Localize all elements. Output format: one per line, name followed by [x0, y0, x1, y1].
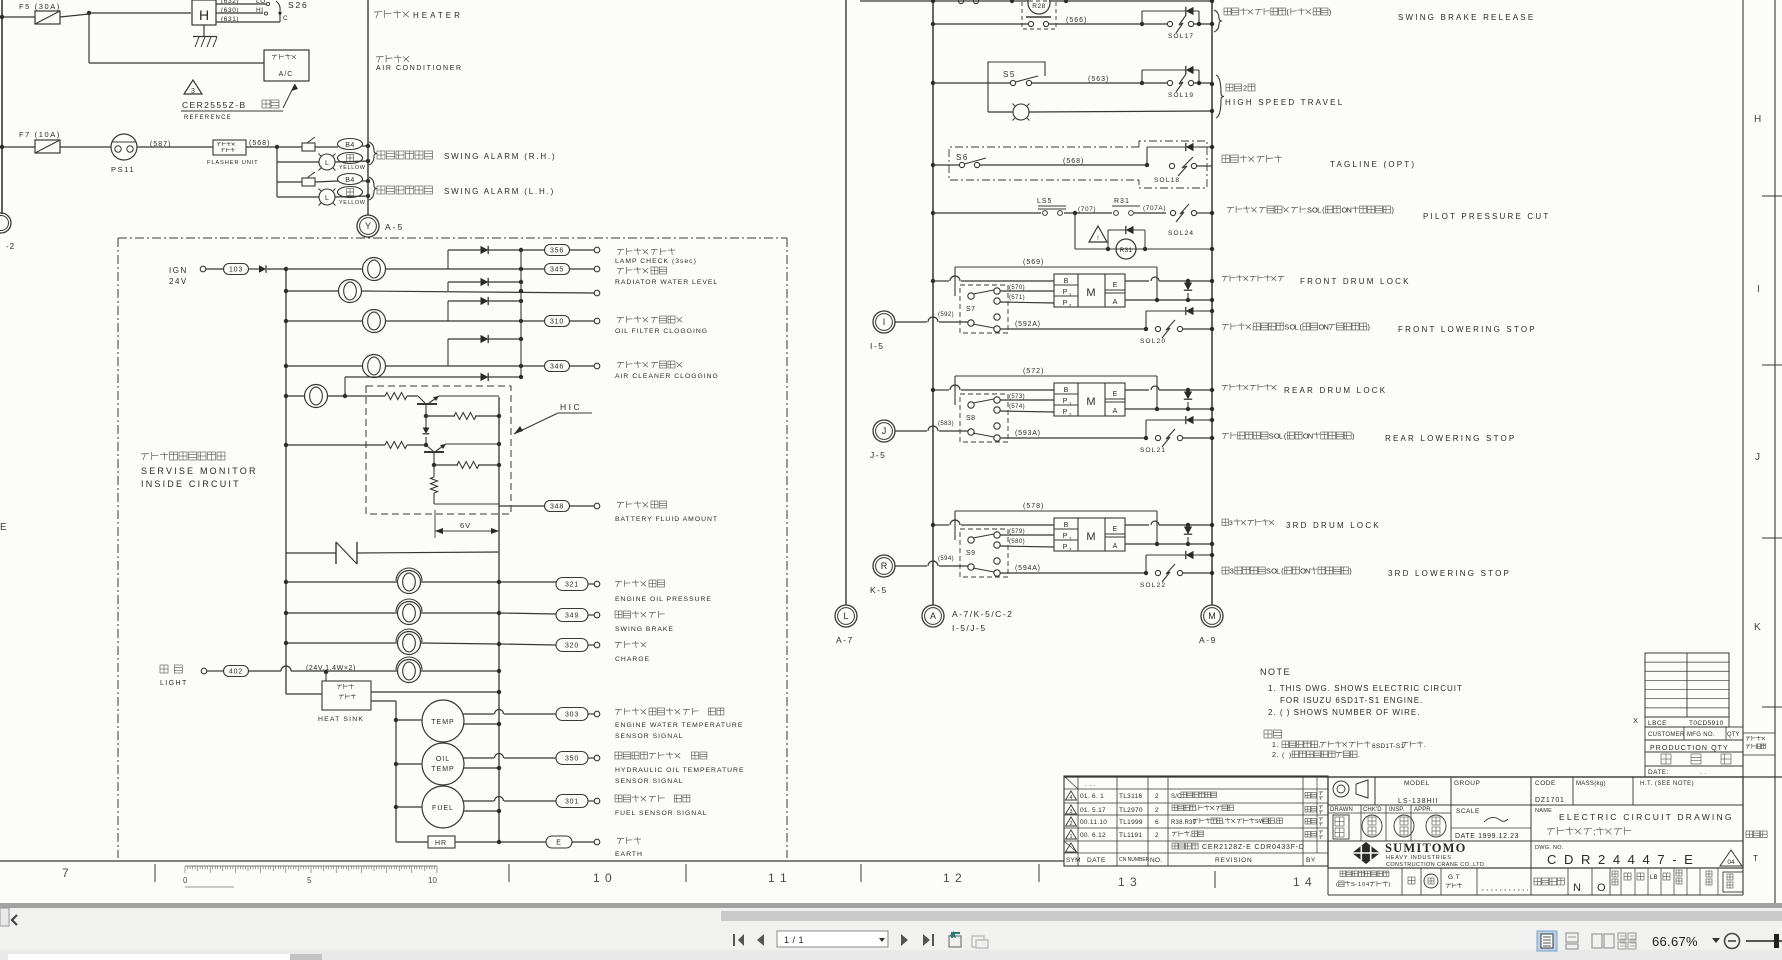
svg-text:): ): [1329, 7, 1331, 16]
svg-text:FLASHER UNIT: FLASHER UNIT: [207, 160, 258, 166]
sym triangles: [1066, 791, 1077, 800]
svg-text:-: -: [1355, 882, 1357, 888]
svg-text:INSIDE CIRCUIT: INSIDE CIRCUIT: [141, 479, 241, 489]
svg-text:T0CD5910: T0CD5910: [1689, 720, 1724, 727]
svg-text:RADIATOR WATER LEVEL: RADIATOR WATER LEVEL: [615, 279, 718, 286]
buzzer R.H.: [302, 143, 315, 151]
arrow to A/C box: [283, 84, 295, 108]
svg-text:NOTE: NOTE: [1260, 667, 1291, 677]
svg-text:K-5: K-5: [870, 585, 888, 595]
svg-text:K: K: [1754, 622, 1761, 633]
svg-text:I-5: I-5: [870, 341, 884, 351]
svg-text:1 0: 1 0: [593, 871, 613, 885]
svg-text:;: ;: [1593, 826, 1595, 836]
svg-text:REAR LOWERING STOP: REAR LOWERING STOP: [1385, 434, 1516, 443]
svg-text:0: 0: [1362, 882, 1365, 888]
svg-text:HI: HI: [256, 7, 264, 14]
note japanese: [1264, 730, 1272, 738]
svg-text:N: N: [1324, 322, 1329, 331]
svg-text:INSP.: INSP.: [1389, 807, 1405, 813]
svg-text:S26: S26: [288, 0, 309, 10]
svg-text:R31: R31: [1114, 198, 1130, 205]
svg-text:ENGINE WATER TEMPERATURE: ENGINE WATER TEMPERATURE: [615, 722, 743, 729]
name cell: [1328, 840, 1743, 842]
svg-text:3: 3: [1229, 520, 1233, 527]
svg-text:1 3: 1 3: [1118, 875, 1138, 889]
svg-text:J: J: [882, 426, 887, 436]
lamp L yellow right: [277, 161, 319, 163]
svg-text:N: N: [1347, 205, 1352, 214]
wire B from bus: [931, 388, 935, 392]
svg-text:A/C: A/C: [279, 71, 294, 78]
svg-text:): ): [1368, 322, 1370, 331]
svg-text:I: I: [883, 317, 886, 327]
A wire to bus: [1125, 408, 1212, 410]
svg-text:(592): (592): [938, 312, 954, 318]
svg-text:H.T. (SEE NOTE): H.T. (SEE NOTE): [1640, 781, 1694, 787]
overlay column: [1743, 733, 1775, 755]
switch S5: [931, 81, 935, 85]
svg-text:FRONT DRUM LOCK: FRONT DRUM LOCK: [1300, 277, 1411, 286]
row5 HIC input lamp: [284, 394, 288, 398]
svg-text:N: N: [1573, 882, 1581, 894]
E wire to bus: [1125, 280, 1149, 282]
svg-text:I-5/J-5: I-5/J-5: [952, 623, 987, 633]
svg-text:S7: S7: [966, 306, 976, 313]
scale cell: [1450, 805, 1452, 841]
svg-text:R28: R28: [1032, 3, 1045, 10]
flyback diode vertical: [1184, 283, 1192, 291]
svg-text:E: E: [1113, 282, 1118, 289]
svg-text:2. ( ) SHOWS NUMBER OF WIRE.: 2. ( ) SHOWS NUMBER OF WIRE.: [1268, 708, 1420, 717]
svg-text:CER2555Z-B: CER2555Z-B: [182, 100, 247, 110]
svg-text:SENSOR SIGNAL: SENSOR SIGNAL: [615, 733, 684, 740]
svg-text:(571): (571): [1009, 295, 1025, 301]
svg-text:SWING ALARM (L.H.): SWING ALARM (L.H.): [444, 187, 555, 196]
svg-text:(580): (580): [1009, 539, 1025, 545]
svg-text:REFERENCE: REFERENCE: [184, 115, 232, 121]
labels swing alarm RH: [369, 142, 377, 165]
svg-text:TEMP: TEMP: [431, 719, 454, 726]
svg-text:HYDRAULIC OIL TEMPERATURE: HYDRAULIC OIL TEMPERATURE: [615, 767, 745, 774]
rail vertical right: [498, 397, 500, 842]
svg-text:(566): (566): [1066, 17, 1087, 24]
svg-text:H: H: [1754, 114, 1761, 125]
svg-text:S6: S6: [956, 153, 969, 162]
svg-text:HR: HR: [435, 840, 447, 847]
svg-text:N: N: [1308, 431, 1313, 440]
label tagline: [1222, 155, 1230, 163]
wire: left edge vertical bus: [1, 0, 3, 214]
svg-text:APPR.: APPR.: [1414, 807, 1433, 813]
svg-text:L: L: [325, 195, 329, 202]
svg-text:(593A): (593A): [1015, 430, 1041, 437]
production qty table top right: [1645, 653, 1729, 717]
page layout icons: [1537, 931, 1557, 951]
solenoid SOL17: [1140, 22, 1144, 26]
motor box B P1 P2 M E A: [1054, 383, 1125, 416]
svg-text:CN NUMBER: CN NUMBER: [1119, 857, 1150, 863]
label pilot pressure cut: [1227, 207, 1234, 213]
svg-text:E: E: [1113, 526, 1118, 533]
svg-text:E: E: [556, 840, 561, 847]
row charge 320: [284, 641, 288, 645]
main title block frame: [1064, 776, 1782, 778]
svg-text:L: L: [1276, 566, 1280, 575]
svg-text:): ): [1389, 882, 1391, 888]
svg-text:,: ,: [1319, 742, 1321, 749]
svg-text:(579): (579): [1009, 529, 1025, 535]
connector Y A-5: [357, 215, 379, 237]
switch S upper: [960, 285, 1008, 333]
svg-text:FUEL SENSOR SIGNAL: FUEL SENSOR SIGNAL: [615, 810, 708, 817]
svg-text:FUEL: FUEL: [432, 805, 454, 812]
wire B from bus: [931, 279, 935, 283]
label service monitor inside circuit: [141, 454, 149, 460]
ground below heater: [203, 25, 205, 36]
svg-text:SOL19: SOL19: [1168, 92, 1194, 99]
svg-text:3: 3: [191, 88, 195, 95]
svg-text:J: J: [1755, 452, 1760, 463]
svg-text:B: B: [1064, 387, 1069, 394]
svg-text:SENSOR SIGNAL: SENSOR SIGNAL: [615, 778, 684, 785]
svg-text:S5: S5: [1003, 70, 1016, 79]
svg-text:1: 1: [1069, 834, 1072, 840]
FUEL sensor: [394, 805, 398, 809]
svg-text:AIR CONDITIONER: AIR CONDITIONER: [376, 65, 463, 72]
relay R31 coil: [1074, 213, 1076, 249]
svg-text:F5 (30A): F5 (30A): [19, 2, 61, 11]
svg-text:DATE: DATE: [1087, 857, 1106, 864]
svg-text:(632): (632): [221, 0, 239, 5]
svg-text:ENGINE OIL PRESSURE: ENGINE OIL PRESSURE: [615, 596, 712, 603]
svg-text:CER2128Z-E CDR0433F-D: CER2128Z-E CDR0433F-D: [1202, 844, 1305, 851]
svg-text:1: 1: [1358, 882, 1361, 888]
svg-text:L: L: [325, 160, 329, 167]
lamp check line 356: [448, 249, 521, 251]
row1 radiator water level 345: [284, 267, 288, 271]
svg-text:B4: B4: [345, 177, 355, 184]
HR earth box: [396, 841, 428, 843]
svg-text:M: M: [1208, 611, 1216, 621]
flasher unit box: [213, 140, 246, 155]
row light lamp: [398, 660, 421, 683]
contacts upper: [968, 293, 974, 299]
A wire to bus: [1125, 299, 1212, 301]
wire: L connector bus vertical: [845, 0, 847, 605]
svg-text:M: M: [1086, 396, 1095, 408]
svg-text:HEAVY INDUSTRIES: HEAVY INDUSTRIES: [1386, 855, 1452, 861]
svg-text:310: 310: [550, 319, 564, 326]
heatsink to sensor rail: [371, 700, 396, 702]
svg-text:DATE:: DATE:: [1648, 769, 1669, 776]
svg-text:5: 5: [307, 876, 312, 885]
svg-text:321: 321: [565, 582, 579, 589]
svg-text:SWING BRAKE RELEASE: SWING BRAKE RELEASE: [1398, 13, 1535, 22]
svg-text:P: P: [1063, 398, 1068, 405]
svg-text:L: L: [1294, 322, 1298, 331]
svg-text:HEATER: HEATER: [413, 11, 463, 20]
svg-text:BATTERY FLUID AMOUNT: BATTERY FLUID AMOUNT: [615, 516, 718, 523]
svg-text:2: 2: [1155, 807, 1159, 814]
svg-text:0: 0: [183, 876, 188, 885]
svg-text:B: B: [1064, 522, 1069, 529]
svg-text:MASS(kg): MASS(kg): [1576, 781, 1606, 787]
svg-text:): ): [1392, 205, 1394, 214]
switch S lower: [968, 429, 974, 435]
svg-text:S9: S9: [966, 550, 976, 557]
svg-text:PILOT PRESSURE CUT: PILOT PRESSURE CUT: [1423, 212, 1550, 221]
svg-text:R38.R39: R38.R39: [1171, 820, 1197, 826]
high speed travel lamp: [987, 95, 989, 112]
switch S upper: [960, 394, 1008, 442]
svg-text:SOL17: SOL17: [1168, 33, 1194, 40]
svg-text:A-7/K-5/C-2: A-7/K-5/C-2: [952, 609, 1013, 619]
svg-text:350: 350: [565, 756, 579, 763]
svg-text:TL2970: TL2970: [1119, 807, 1143, 814]
solenoid SOL21: [1144, 436, 1148, 440]
svg-text:. .: . .: [1700, 769, 1707, 776]
svg-text:NAME: NAME: [1535, 808, 1552, 814]
svg-text:(594A): (594A): [1015, 565, 1041, 572]
bottom frame line: [0, 860, 1064, 862]
forward buttons: [901, 934, 908, 946]
svg-text:P: P: [1063, 544, 1068, 551]
svg-text:B4: B4: [345, 142, 355, 149]
svg-text:(568): (568): [249, 140, 270, 147]
row3 oil filter clogging 310: [284, 319, 288, 323]
drawn chkd insp appr header: [1328, 812, 1451, 814]
HIC resistor R3: [432, 463, 436, 467]
svg-text:P: P: [1063, 289, 1068, 296]
svg-text:): ): [1289, 752, 1291, 759]
svg-text:7: 7: [62, 866, 69, 880]
right margin borders: [1742, 0, 1744, 777]
connector K-2 left edge: [0, 213, 11, 233]
svg-text:A: A: [1113, 543, 1118, 550]
svg-text:CUSTOMER: CUSTOMER: [1648, 732, 1685, 738]
svg-text:1. THIS DWG. SHOWS ELECTRIC C: 1. THIS DWG. SHOWS ELECTRIC CIRCUIT: [1268, 684, 1463, 693]
svg-text:349: 349: [565, 613, 579, 620]
viewer panel background: [0, 903, 1782, 960]
right bus right vertical: [1211, 0, 1213, 605]
wire heatsink to rail: [371, 691, 499, 693]
HIC transistor T1: [407, 395, 418, 397]
TEMP sensor: [394, 718, 398, 722]
svg-text:A-7: A-7: [836, 635, 854, 645]
svg-text:10: 10: [428, 876, 437, 885]
bus A vertical: [285, 269, 287, 694]
wires: heater switch lines 632/630/631: [216, 3, 266, 5]
label heater: [374, 12, 382, 18]
svg-text:YELLOW: YELLOW: [339, 200, 366, 206]
svg-text:00. 6.12: 00. 6.12: [1080, 832, 1106, 839]
svg-text:(707A): (707A): [1143, 205, 1166, 212]
relay R28 contact: [1022, 1, 1056, 29]
connector I: [873, 311, 895, 333]
svg-text:24V: 24V: [169, 277, 188, 286]
svg-text:2.: 2.: [1272, 752, 1279, 759]
svg-text:FRONT LOWERING STOP: FRONT LOWERING STOP: [1398, 325, 1537, 334]
svg-text:6: 6: [1155, 819, 1159, 826]
svg-text:J-5: J-5: [870, 450, 886, 460]
svg-text:320: 320: [565, 643, 579, 650]
svg-text:EARTH: EARTH: [615, 851, 643, 858]
svg-text:DRAWN: DRAWN: [1330, 807, 1353, 813]
node: alarm branch: [275, 145, 279, 149]
jigyosho cell: [1742, 777, 1744, 895]
svg-text:AIR CLEANER CLOGGING: AIR CLEANER CLOGGING: [615, 373, 719, 380]
svg-text:LB: LB: [1650, 875, 1658, 881]
svg-text:DZ1701: DZ1701: [1535, 797, 1565, 804]
svg-text:OIL FILTER CLOGGING: OIL FILTER CLOGGING: [615, 328, 708, 335]
label oval B4 left: [338, 174, 363, 185]
svg-text:CONSTRUCTION CRANE CO.,LTD.: CONSTRUCTION CRANE CO.,LTD.: [1386, 862, 1486, 868]
svg-text:SYM: SYM: [1066, 857, 1081, 864]
svg-text:103: 103: [229, 267, 243, 274]
revision table: [1064, 776, 1328, 866]
svg-text:SOL18: SOL18: [1154, 177, 1180, 184]
svg-text:346: 346: [550, 364, 564, 371]
flyback diode vertical: [1184, 392, 1192, 400]
svg-text:N: N: [1305, 566, 1310, 575]
svg-text:(592A): (592A): [1015, 321, 1041, 328]
svg-text:MFG NO.: MFG NO.: [1687, 732, 1715, 738]
svg-text:2: 2: [1243, 83, 1247, 92]
svg-text:1 4: 1 4: [1293, 875, 1313, 889]
svg-text:R31: R31: [1120, 247, 1133, 254]
svg-text:2: 2: [1155, 832, 1159, 839]
wire from connector: [895, 565, 927, 567]
svg-text:(594): (594): [938, 556, 954, 562]
connector M A-9: [1201, 605, 1223, 627]
buzzer L.H.: [302, 178, 315, 186]
label swing brake release: [1214, 10, 1222, 32]
customer mfg row: [1645, 727, 1743, 740]
svg-text:IGN: IGN: [169, 266, 188, 275]
old dwg row: [1172, 843, 1178, 849]
svg-text:S8: S8: [966, 415, 976, 422]
svg-text:3: 3: [1230, 566, 1234, 575]
svg-text:CODE: CODE: [1535, 780, 1556, 787]
svg-text:LS5: LS5: [1037, 198, 1052, 205]
solenoid SOL18: [1145, 163, 1149, 167]
svg-text:L: L: [843, 611, 848, 621]
connector R: [873, 555, 895, 577]
svg-text:04: 04: [1727, 859, 1735, 866]
svg-text:B: B: [1064, 278, 1069, 285]
E wire to bus: [1125, 389, 1149, 391]
relay R28 top row: [860, 0, 1028, 2]
HIC diode down: [425, 416, 427, 428]
margin ticks: [1762, 195, 1782, 197]
svg-text:(587): (587): [150, 141, 171, 148]
svg-text:348: 348: [550, 504, 564, 511]
svg-text:303: 303: [565, 712, 579, 719]
svg-text:4: 4: [1069, 795, 1072, 801]
svg-text:P: P: [1063, 409, 1068, 416]
A wire to bus: [1125, 543, 1212, 545]
svg-text:REVISION: REVISION: [1215, 857, 1252, 864]
svg-text:BY: BY: [1306, 857, 1316, 864]
HIC transistor T2: [426, 445, 433, 451]
svg-text:L: L: [1317, 205, 1321, 214]
svg-text:SOL20: SOL20: [1140, 338, 1166, 345]
svg-text:(573): (573): [1009, 394, 1025, 400]
svg-text:OIL: OIL: [436, 756, 450, 763]
svg-text:A: A: [1113, 408, 1118, 415]
svg-text:YELLOW: YELLOW: [339, 165, 366, 171]
svg-text:E: E: [1113, 391, 1118, 398]
reference triangle 3: [184, 80, 202, 94]
right bus left vertical: [932, 0, 934, 605]
svg-text:LO: LO: [256, 0, 266, 5]
row engine oil pressure 321: [284, 580, 288, 584]
svg-text:P: P: [1063, 300, 1068, 307]
svg-text:L: L: [1279, 431, 1283, 440]
svg-text:402: 402: [229, 669, 243, 676]
HIC resistor R1: [385, 393, 407, 400]
stamps: [1333, 815, 1349, 839]
svg-text:M: M: [1086, 531, 1095, 543]
svg-text:(583): (583): [938, 421, 954, 427]
svg-text:A-5: A-5: [385, 222, 404, 232]
heat sink box: [324, 670, 328, 674]
svg-text:TEMP: TEMP: [431, 766, 454, 773]
svg-text:(578): (578): [1023, 503, 1044, 510]
HIC resistor R4 vertical: [433, 465, 435, 477]
svg-text:.: .: [1424, 742, 1426, 749]
svg-text:(572): (572): [1023, 368, 1044, 375]
svg-text:1.: 1.: [1272, 742, 1279, 749]
svg-text:1 / 1: 1 / 1: [784, 935, 804, 945]
svg-text:X: X: [1633, 716, 1638, 725]
svg-text:TL1191: TL1191: [1119, 832, 1142, 839]
connector A: [922, 605, 944, 627]
svg-text:PS11: PS11: [111, 165, 135, 174]
svg-text:(569): (569): [1023, 259, 1044, 266]
scrollbar left button: [0, 908, 9, 926]
flyback diode vertical: [1184, 527, 1192, 535]
swing brake release row: [931, 22, 935, 26]
air conditioner box A/C: [264, 50, 309, 81]
labels: [1222, 385, 1229, 390]
contacts upper: [968, 537, 974, 543]
svg-text:F7 (10A): F7 (10A): [19, 130, 61, 139]
svg-text:3RD LOWERING STOP: 3RD LOWERING STOP: [1388, 569, 1511, 578]
page box: [777, 931, 888, 947]
label oval B4 right: [338, 139, 363, 150]
svg-text:I: I: [1757, 284, 1760, 295]
svg-text:-2: -2: [6, 242, 15, 251]
svg-text:SWING ALARM (R.H.): SWING ALARM (R.H.): [444, 152, 556, 161]
wire B from bus: [931, 523, 935, 527]
row6 HIC input 2: [284, 443, 288, 447]
svg-text:(574): (574): [1009, 404, 1025, 410]
svg-text:SERVISE MONITOR: SERVISE MONITOR: [141, 466, 258, 476]
svg-text:O: O: [1597, 882, 1606, 894]
by column stamps: [1305, 793, 1311, 799]
svg-text:DATE 1999.12.23: DATE 1999.12.23: [1455, 833, 1519, 840]
svg-text:LAMP CHECK (3sec): LAMP CHECK (3sec): [615, 258, 697, 265]
svg-text:(630): (630): [221, 7, 239, 14]
tagline dashed box: [949, 147, 1139, 180]
ruler: [184, 866, 186, 873]
svg-text:GROUP: GROUP: [1454, 780, 1480, 787]
svg-text:HEAT SINK: HEAT SINK: [318, 716, 364, 723]
column collector vertical: [520, 250, 522, 377]
connector L A-7: [835, 605, 857, 627]
